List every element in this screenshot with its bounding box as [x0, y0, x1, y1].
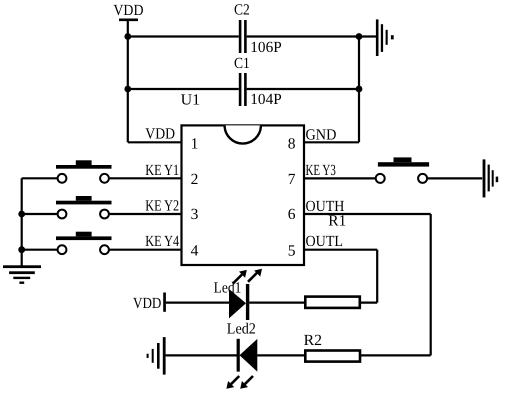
resistor R2: [305, 351, 360, 362]
svg-text:5: 5: [288, 242, 296, 259]
LED Led2: [226, 339, 257, 389]
wire C1 left: [128, 88, 239, 90]
wire KEY2 left: [22, 213, 58, 215]
svg-text:4: 4: [191, 242, 199, 259]
wire KEY4 left: [22, 249, 58, 251]
wire C2 left: [128, 35, 239, 37]
capacitor C1: [239, 73, 247, 106]
switch KEY1: [56, 160, 112, 182]
wire pin7 KEY3: [304, 177, 376, 179]
wire Led1 to R1: [249, 302, 305, 304]
ground top right: [376, 19, 394, 56]
svg-text:KE Y3: KE Y3: [306, 162, 336, 179]
switch KEY4: [56, 232, 112, 254]
wire KEY3 to right ground: [427, 177, 482, 179]
node junction C1-VDD: [124, 86, 131, 93]
svg-text:R1: R1: [328, 213, 346, 230]
capacitor C2: [239, 20, 247, 53]
switch KEY3: [376, 157, 429, 183]
svg-text:VDD: VDD: [145, 126, 175, 143]
wire KEY1 left: [22, 177, 58, 179]
svg-text:8: 8: [288, 136, 296, 153]
node junction C2-GND: [356, 33, 363, 40]
svg-text:R2: R2: [304, 332, 322, 349]
wire R2 right: [360, 354, 431, 356]
wire pin6 OUTH: [304, 213, 431, 215]
wire pin5 OUTL: [304, 249, 377, 251]
svg-text:OUTL: OUTL: [306, 233, 344, 250]
svg-text:104P: 104P: [250, 91, 281, 108]
op-amp U1 chip body: [182, 125, 305, 265]
wire R1 right: [360, 302, 377, 304]
LED Led1: [229, 269, 262, 320]
wire OUTH vertical: [430, 214, 432, 355]
svg-text:VDD: VDD: [113, 2, 143, 19]
wire KEY2 to pin3: [109, 213, 182, 215]
ground bottom left: [3, 265, 41, 284]
wire ground to Led2: [166, 354, 237, 356]
wire left bus vertical: [21, 178, 23, 266]
svg-text:GND: GND: [306, 127, 337, 144]
switch KEY2: [56, 196, 112, 218]
wire KEY4 to pin4: [109, 249, 182, 251]
svg-text:3: 3: [191, 206, 199, 223]
resistor R1: [305, 297, 360, 308]
svg-text:VDD: VDD: [133, 295, 161, 312]
svg-text:C1: C1: [234, 55, 250, 72]
wire Led2 to R2: [257, 354, 305, 356]
wire KEY1 to pin2: [109, 177, 182, 179]
svg-text:KE Y2: KE Y2: [145, 198, 179, 215]
svg-text:2: 2: [191, 171, 199, 188]
wire C2 right: [247, 35, 359, 37]
wire to top ground: [359, 35, 376, 37]
svg-text:1: 1: [191, 136, 199, 153]
svg-text:C2: C2: [234, 1, 250, 18]
svg-text:7: 7: [288, 171, 296, 188]
power VDD top: [119, 18, 138, 21]
svg-text:KE Y4: KE Y4: [145, 233, 179, 250]
svg-text:Led1: Led1: [214, 279, 242, 296]
svg-text:106P: 106P: [250, 39, 281, 56]
node junction KEY4 bus: [18, 246, 25, 253]
wire right vertical to pin8: [358, 37, 360, 143]
svg-text:U1: U1: [181, 92, 201, 109]
wire OUTL vertical: [376, 250, 378, 303]
wire pin1 to VDD: [128, 141, 182, 143]
power VDD Led1 row: [163, 293, 166, 312]
ground Led2 row: [147, 337, 166, 375]
svg-text:6: 6: [288, 206, 296, 223]
wire C1 right: [247, 88, 359, 90]
ground right middle: [483, 159, 499, 197]
node junction KEY2 bus: [18, 211, 25, 218]
node junction C1-GND: [356, 86, 363, 93]
wire VDD vertical: [127, 20, 129, 143]
svg-text:KE Y1: KE Y1: [145, 162, 179, 179]
svg-text:Led2: Led2: [227, 320, 256, 337]
node junction C2-VDD: [124, 33, 131, 40]
wire VDD to Led1: [166, 302, 229, 304]
wire pin8 GND: [304, 141, 359, 143]
